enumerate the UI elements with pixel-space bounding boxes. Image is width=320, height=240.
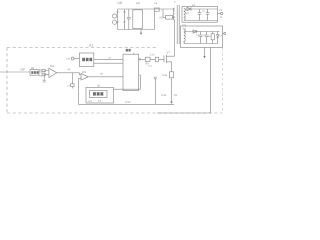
input resistor R2 box xyxy=(42,69,45,71)
gate wire segment 2 xyxy=(159,58,164,60)
AC source circle 2 xyxy=(113,20,117,24)
AC source circle xyxy=(113,14,117,18)
output2 terminal circle xyxy=(224,32,226,34)
sense wire down xyxy=(171,78,173,102)
op-amp IC2 triangle xyxy=(81,74,88,81)
ground stub under filter xyxy=(140,30,142,33)
input resistor R3 box xyxy=(42,73,45,75)
bridge diode tick 3 xyxy=(123,11,125,13)
opamp1 lower input wire xyxy=(44,74,49,76)
svg-text:C2: C2 xyxy=(202,10,206,13)
divider box R1 xyxy=(30,70,39,76)
bridge diode tick 4 xyxy=(123,21,125,23)
feedback wire down and left xyxy=(157,48,211,114)
svg-text:T: T xyxy=(174,0,176,4)
svg-text:N1: N1 xyxy=(183,24,187,27)
bridge diode tick 1 xyxy=(116,11,118,13)
MOSFET source stub xyxy=(166,61,171,63)
output2 zener VS xyxy=(217,32,219,44)
opamp2 lower input down wire xyxy=(78,78,80,104)
svg-text:ur: ur xyxy=(109,56,111,59)
gate wire to MOSFET xyxy=(150,58,155,60)
svg-text:OP: OP xyxy=(21,67,25,71)
MOSFET VT gate bar xyxy=(163,56,165,63)
svg-text:U1: U1 xyxy=(89,44,93,48)
svg-text:R7: R7 xyxy=(209,35,213,38)
reference-to-IC wire xyxy=(94,58,123,60)
divider to opamp wire xyxy=(39,71,49,73)
op-amp IC1 triangle xyxy=(49,68,57,77)
svg-text:C10: C10 xyxy=(150,53,155,56)
u1 pulldown wire xyxy=(71,73,73,84)
IC-to-monostable wire xyxy=(114,75,141,89)
capacitor C1 bottom lead xyxy=(128,19,130,30)
output1 cap C3 xyxy=(206,9,210,21)
svg-text:G: G xyxy=(220,16,222,19)
svg-text:R10: R10 xyxy=(126,101,131,104)
PWM IC label xyxy=(126,49,131,52)
output box 2 xyxy=(181,26,223,48)
output2 bottom wire xyxy=(184,43,218,45)
bottom horizontal wire xyxy=(79,103,175,105)
filter capacitor C1 top lead xyxy=(128,9,130,17)
opamp1 lower input down wire xyxy=(43,75,45,81)
output2 cap C9 xyxy=(205,32,209,44)
MOSFET drain stub xyxy=(166,55,174,57)
monostable outer box xyxy=(86,87,114,103)
output2 cap C8 xyxy=(199,32,203,44)
IC output bubble xyxy=(139,59,141,61)
output2 resistor R7 xyxy=(212,32,214,44)
svg-text:R1: R1 xyxy=(31,66,35,70)
snubber RC box xyxy=(166,16,173,20)
top DC rail wire xyxy=(118,8,175,10)
reference input terminal xyxy=(71,57,74,60)
opamp2-to-IC wire xyxy=(88,76,123,78)
transformer primary winding xyxy=(173,8,175,20)
output2 top wire xyxy=(184,31,220,33)
filter module box xyxy=(133,10,143,29)
svg-text:IC1: IC1 xyxy=(50,64,55,68)
monostable inner text xyxy=(93,92,103,95)
divider box inner text xyxy=(31,71,38,74)
opamp2 upper input jog wire xyxy=(80,73,82,75)
source down wire xyxy=(171,62,173,72)
svg-text:ic: ic xyxy=(133,52,136,55)
u1 pulldown stub xyxy=(71,87,73,89)
output2 terminal wire xyxy=(223,33,225,35)
PWM IC box xyxy=(123,54,139,90)
gate drive wire from IC xyxy=(141,58,146,60)
gate series box 2 xyxy=(155,57,158,61)
sense foot arrow xyxy=(170,101,172,104)
gate resistor R9 box xyxy=(145,57,150,61)
transformer core lines xyxy=(177,5,179,44)
dashed control-box top border xyxy=(7,47,158,49)
svg-text:V1: V1 xyxy=(219,9,223,12)
output box 1 xyxy=(182,7,218,23)
primary-to-drain riser wire xyxy=(174,20,176,56)
output1 terminal wire xyxy=(218,13,221,15)
input wire xyxy=(0,71,30,73)
monostable inner box xyxy=(90,90,107,97)
svg-text:u1: u1 xyxy=(68,68,71,71)
output1 diode VD1 xyxy=(187,7,191,10)
sense resistor box xyxy=(170,72,174,78)
svg-text:IC2: IC2 xyxy=(82,70,87,74)
svg-text:L1: L1 xyxy=(154,1,158,5)
snubber feed wire xyxy=(163,9,166,17)
output2 diode VD2 xyxy=(193,30,197,33)
opamp1 output wire xyxy=(57,72,80,74)
svg-text:VD: VD xyxy=(186,12,190,15)
line filter box on rail xyxy=(154,8,159,11)
u1 pulldown component box xyxy=(71,84,74,87)
dashed control-box bottom border xyxy=(7,112,222,114)
reference box xyxy=(79,53,93,67)
reference-to-IC wire 2 xyxy=(94,62,123,64)
reference box text line1 xyxy=(82,58,92,61)
output1 cap C2 xyxy=(198,9,202,21)
svg-text:R5: R5 xyxy=(89,100,93,103)
svg-text:C6: C6 xyxy=(174,94,178,97)
svg-text:LB: LB xyxy=(136,1,140,5)
bypass cap plates xyxy=(43,81,46,83)
svg-text:UR: UR xyxy=(118,1,123,5)
opamp2 lower input wire xyxy=(79,77,82,79)
output2 ground arrow xyxy=(203,56,205,58)
svg-text:C3: C3 xyxy=(67,84,71,87)
reference input wire xyxy=(74,58,80,60)
svg-text:C5: C5 xyxy=(98,100,102,103)
capacitor C1 plates xyxy=(127,17,131,19)
bottom DC rail wire xyxy=(118,29,155,31)
svg-text:R12: R12 xyxy=(162,94,167,97)
CT cap down wire xyxy=(154,79,156,105)
bridge diode tick 2 xyxy=(116,21,118,23)
rail bypass component wire xyxy=(154,11,156,29)
output1 terminal circle xyxy=(221,12,223,14)
bridge rectifier left rail xyxy=(117,9,119,30)
MOSFET channel bar xyxy=(165,55,167,63)
output1 bottom wire xyxy=(184,20,218,22)
svg-text:R11: R11 xyxy=(163,74,168,77)
secondary winding 1 xyxy=(184,9,185,21)
ground arrow xyxy=(140,33,142,35)
output1 top wire xyxy=(184,8,218,10)
snubber to winding wire xyxy=(173,16,175,18)
output2 ground stub xyxy=(204,48,206,57)
svg-text:VT: VT xyxy=(167,51,171,55)
dashed control-box right border xyxy=(221,48,223,113)
svg-text:CN: CN xyxy=(66,57,70,60)
bridge rectifier right rail xyxy=(123,9,125,30)
svg-text:u3: u3 xyxy=(100,73,103,76)
secondary winding 2 xyxy=(184,30,185,44)
CT cap plates xyxy=(154,77,157,79)
dashed control-box left border xyxy=(6,48,8,114)
svg-text:u2: u2 xyxy=(97,83,101,87)
svg-text:L2: L2 xyxy=(192,3,196,7)
svg-text:RC: RC xyxy=(160,17,164,20)
svg-text:CT: CT xyxy=(149,65,153,68)
